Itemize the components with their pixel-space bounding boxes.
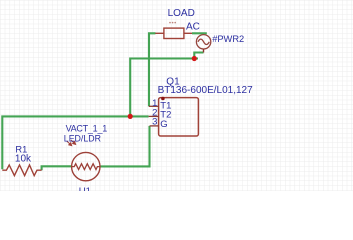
svg-text:U1: U1 <box>79 186 91 191</box>
svg-text:3: 3 <box>152 117 157 128</box>
svg-text:LOAD: LOAD <box>168 8 195 19</box>
svg-text:#PWR2: #PWR2 <box>212 34 244 44</box>
svg-text:AC: AC <box>186 21 200 32</box>
svg-text:10k: 10k <box>15 154 32 165</box>
svg-text:VACT_1_1: VACT_1_1 <box>66 124 108 134</box>
svg-text:G: G <box>160 119 167 130</box>
svg-text:BT136-600E/L01,127: BT136-600E/L01,127 <box>158 85 254 96</box>
svg-text:LED/LDR: LED/LDR <box>64 133 101 143</box>
